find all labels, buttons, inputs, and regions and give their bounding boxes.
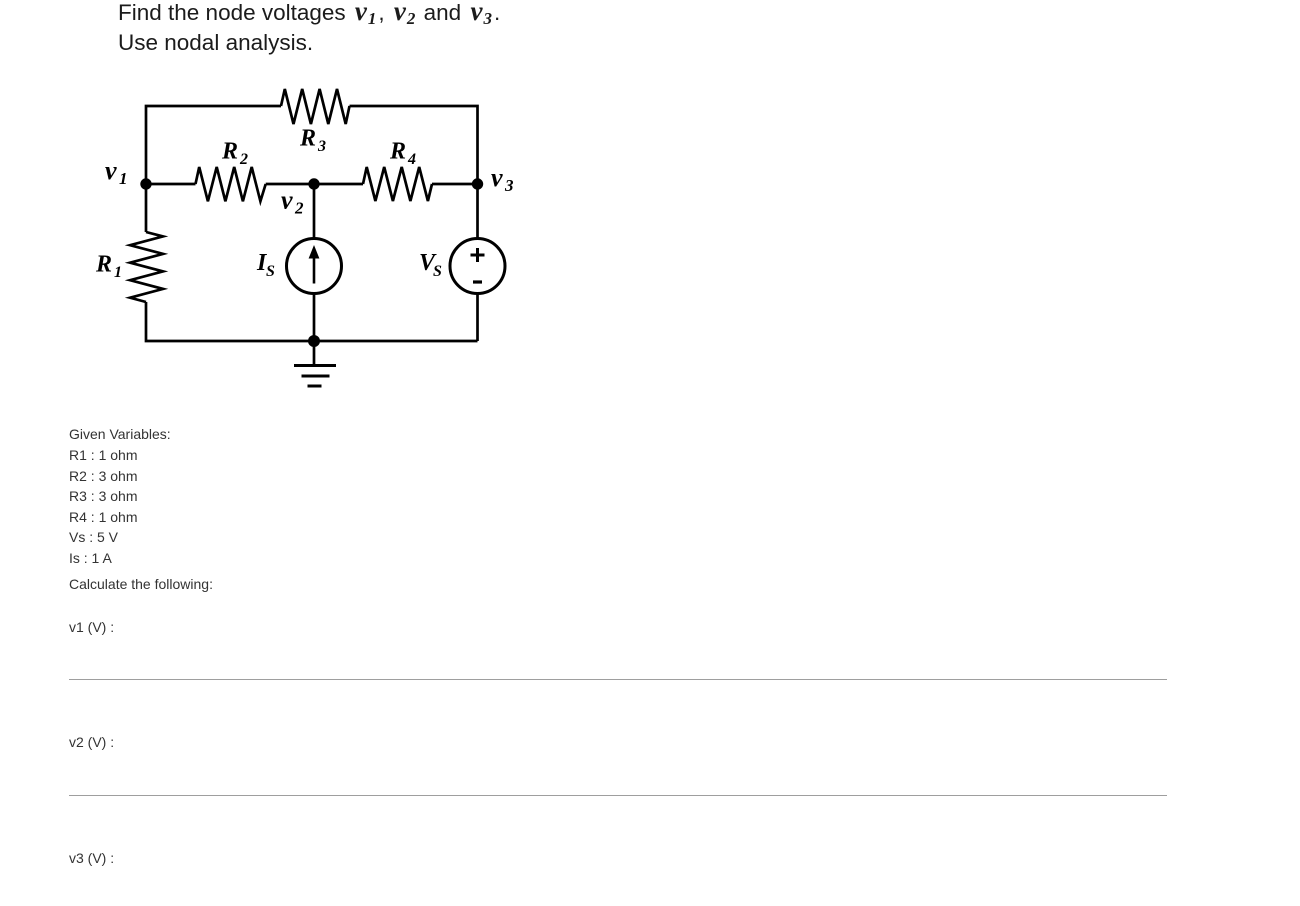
label R3 <box>299 126 326 156</box>
label v1 <box>105 156 128 188</box>
ground stub <box>313 341 316 365</box>
svg-text:R: R <box>221 139 238 165</box>
node v1 junction dot <box>140 178 151 189</box>
VS minus sign <box>473 280 482 283</box>
voltage source VS circle <box>450 239 505 294</box>
label R2 <box>221 139 248 169</box>
svg-text:R: R <box>95 252 112 278</box>
label v3 <box>491 163 514 195</box>
wire v2 node down to current source <box>313 184 316 239</box>
problem title <box>118 0 500 58</box>
wire left rail below R1 to bottom rail <box>146 302 478 341</box>
resistor R3 <box>281 89 350 124</box>
svg-text:S: S <box>266 263 275 280</box>
label R4 <box>389 139 416 169</box>
resistor R1 (vertical) <box>130 232 163 302</box>
resistor R4 <box>363 167 432 201</box>
label v2 <box>281 186 304 218</box>
wire current source to bottom rail <box>313 294 316 342</box>
svg-text:2: 2 <box>294 199 304 218</box>
node v2 junction dot <box>308 178 319 189</box>
svg-text:1: 1 <box>114 264 122 281</box>
svg-text:R: R <box>389 139 406 165</box>
svg-text:v: v <box>105 156 117 185</box>
svg-text:2: 2 <box>239 151 248 168</box>
svg-text:v: v <box>281 186 293 215</box>
label IS <box>256 250 275 280</box>
svg-text:v: v <box>491 163 503 192</box>
wire voltage source to bottom rail <box>476 294 479 342</box>
wire R2 to node v2 <box>266 183 363 186</box>
label VS <box>419 250 442 280</box>
node v3 junction dot <box>472 178 483 189</box>
svg-text:S: S <box>433 263 442 280</box>
given variables text <box>69 426 171 442</box>
svg-text:3: 3 <box>504 176 514 195</box>
svg-text:1: 1 <box>119 169 128 188</box>
ground junction dot <box>308 335 320 347</box>
wire top-left horizontal (top rail left of R3) <box>146 106 281 232</box>
wire R4 to node v3 <box>432 183 478 186</box>
resistor R2 <box>196 167 266 201</box>
svg-text:R: R <box>299 126 316 152</box>
question v3 <box>69 850 114 866</box>
current source IS circle <box>287 239 342 294</box>
label R1 <box>95 252 122 282</box>
wire top rail right of R3 down right side to node v3 <box>350 106 478 239</box>
ground symbol <box>294 366 336 387</box>
svg-text:3: 3 <box>317 138 326 155</box>
question v1 <box>69 619 114 635</box>
VS plus sign <box>471 248 485 262</box>
question v2 <box>69 734 114 750</box>
svg-text:4: 4 <box>407 151 416 168</box>
current source arrow <box>313 256 316 284</box>
wire middle rail v1 to R2 <box>146 183 196 186</box>
